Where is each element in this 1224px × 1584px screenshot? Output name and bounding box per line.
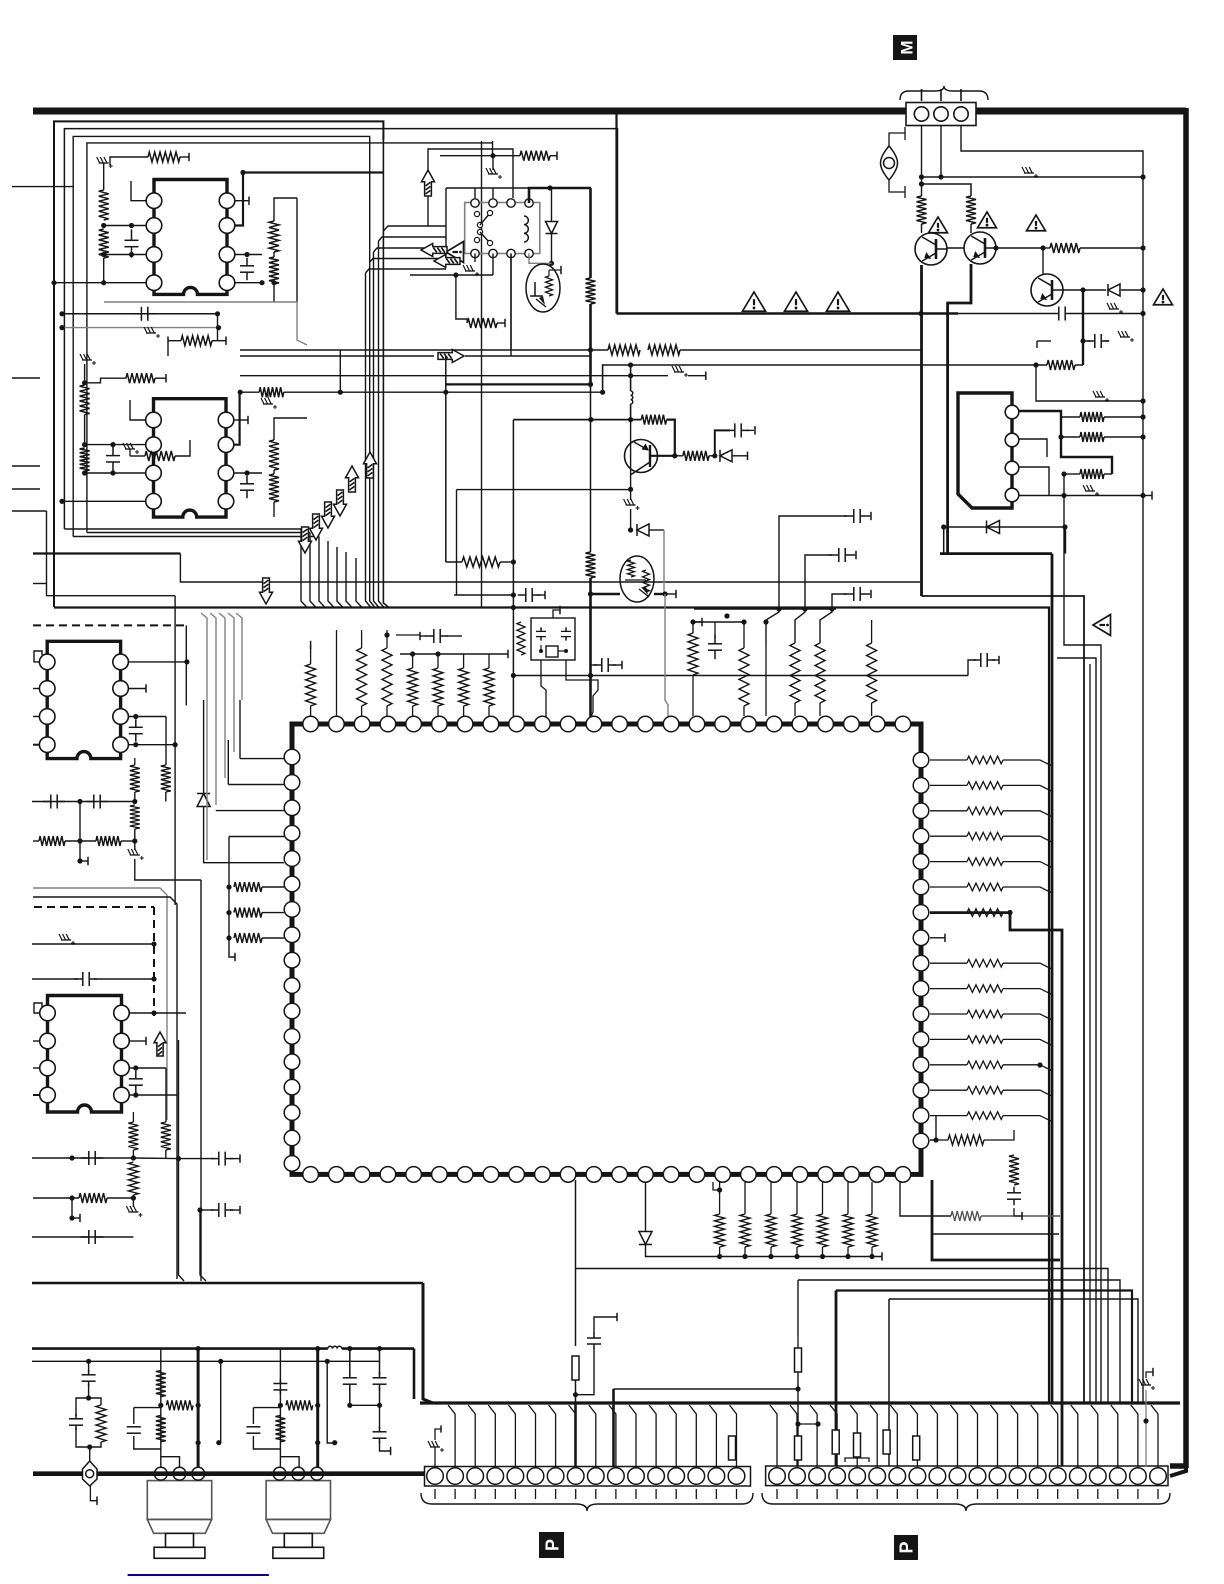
- U1 bottom pins: [303, 1167, 911, 1183]
- thermistor TH2: [620, 556, 654, 602]
- resistor R8: [80, 380, 90, 447]
- capacitor C20: [75, 972, 97, 986]
- wire IC1 pin3 left: [104, 254, 146, 256]
- wire relay bottom net: [475, 254, 552, 351]
- resistor RT10: [790, 643, 800, 716]
- ground G7: [463, 265, 479, 276]
- svg-text:M: M: [898, 40, 917, 54]
- resistor R22: [1061, 412, 1146, 422]
- wire stub left y466: [12, 465, 40, 467]
- resistor R27: [641, 415, 666, 425]
- wire x590 thick drop: [588, 578, 593, 724]
- wire y1283 bus: [32, 1282, 423, 1285]
- wire y801 line: [32, 799, 135, 804]
- wire IC2 pin2 right dark: [234, 392, 240, 445]
- wire relay line y248: [374, 248, 447, 252]
- transistor Q2: [964, 232, 996, 264]
- op-amp IC4: [40, 996, 130, 1113]
- wire th2 net: [591, 590, 676, 598]
- resistor R9: [80, 448, 90, 476]
- resistor R2: [99, 229, 109, 283]
- resistor R6: [168, 336, 226, 346]
- wire bundle V1: [301, 140, 389, 608]
- wire x932 thick: [932, 1180, 1060, 1260]
- capacitor C30: [1007, 1187, 1022, 1220]
- wire top border bus: [33, 108, 1186, 115]
- wire dashed2 right: [153, 907, 155, 1016]
- diode D6: [720, 450, 748, 462]
- wire IC1 pin3 right: [235, 252, 262, 257]
- resistor R23: [1058, 432, 1145, 442]
- speaker SP2 network: [246, 1346, 337, 1467]
- resistor RBB2: [832, 1430, 839, 1454]
- wire IC1 pin1 left: [131, 181, 146, 201]
- wire x201 v: [200, 880, 202, 1281]
- warning triangle W1: [742, 292, 765, 311]
- wire IC3 stubs: [33, 689, 39, 745]
- signal arrow A8 right: [438, 350, 464, 363]
- diode D4: [197, 700, 284, 863]
- capacitor C31: [715, 423, 755, 455]
- capacitor C10: [420, 629, 462, 643]
- wire x456 drop: [456, 490, 458, 595]
- capacitor C12: [708, 622, 722, 659]
- opto triangle: [446, 242, 464, 263]
- ground G12: [1093, 391, 1109, 402]
- wire y596 right: [922, 596, 1085, 1403]
- wire x186 v: [184, 625, 189, 705]
- wire relay thick top: [529, 185, 591, 203]
- wire d7 gray: [663, 530, 665, 594]
- resistor R1: [99, 171, 109, 228]
- wire x1037: [1037, 341, 1051, 348]
- wire y1405 right: [350, 1404, 380, 1406]
- resistor RT11: [815, 643, 825, 716]
- signal arrow A4 down: [310, 514, 323, 540]
- op-amp IC1: [146, 180, 235, 295]
- resistor R7: [85, 373, 166, 383]
- wire IC1 pin4 right: [235, 280, 265, 285]
- wire Q4 vert: [628, 420, 633, 492]
- signal arrow A3 down: [299, 527, 312, 553]
- inductor K1 coil: [524, 216, 528, 242]
- wire x665 drop: [665, 594, 668, 724]
- resistor R16: [467, 318, 505, 328]
- wire R10 top: [274, 418, 307, 424]
- link SPK underline: [128, 1574, 269, 1576]
- wire stub left y511: [12, 510, 47, 512]
- ground G13: [1083, 485, 1099, 496]
- wire spk2 capline: [332, 1440, 337, 1445]
- ground G16: [126, 1198, 142, 1217]
- wire y1280 line: [795, 1280, 1121, 1466]
- wire y392 ext: [340, 390, 602, 395]
- resistor RL1: [226, 882, 284, 892]
- wire y364 jog: [600, 362, 1036, 394]
- wire R4 top: [274, 198, 297, 302]
- ground G14: [128, 841, 144, 860]
- capacitor C18: [43, 795, 65, 809]
- wire pin900 out: [900, 1182, 951, 1216]
- wire stub left y489: [12, 488, 40, 490]
- resistor RL6: [130, 805, 140, 844]
- warning triangle W3: [826, 292, 849, 311]
- wire y609 right: [694, 606, 836, 611]
- resistor RR17: [936, 1130, 1014, 1145]
- wire drop to R16: [456, 275, 467, 319]
- resistor RT7: [382, 630, 392, 716]
- capacitor C27: [373, 1346, 387, 1408]
- resistor R25: [586, 552, 596, 578]
- resistor R3: [148, 152, 189, 162]
- wire M pin3 route: [961, 125, 1143, 1403]
- wire y658 link: [1057, 658, 1096, 1403]
- speaker SP1: [147, 1467, 211, 1558]
- wire IC3 pin2 right: [129, 684, 146, 692]
- resistor R11: [269, 470, 279, 517]
- wire pin L3: [216, 810, 284, 812]
- wire x200 v: [197, 1145, 202, 1213]
- diode D7: [637, 524, 664, 536]
- resistor RL10: [128, 1112, 138, 1161]
- CN-A brace: [421, 1493, 753, 1511]
- wire IC2 pin1 right: [234, 416, 248, 424]
- wire y553 thick: [940, 552, 1052, 555]
- relay K1 contacts: [474, 210, 492, 245]
- resistor RBB1: [795, 1436, 802, 1460]
- U1 top pins: [303, 716, 911, 732]
- connector key CN-K: [83, 1461, 98, 1505]
- wire y313 cap line: [59, 311, 217, 316]
- wire x1084 tail: [1083, 1403, 1085, 1466]
- ground G8: [1107, 303, 1123, 314]
- wire x1143 lower: [1142, 151, 1144, 1403]
- wire speaker bus: [33, 1471, 424, 1476]
- wire gray under IC1: [104, 302, 307, 345]
- capacitor C22: [81, 1151, 103, 1165]
- ground G11: [1118, 331, 1134, 342]
- resistor RBB5: [913, 1436, 920, 1460]
- wire y177 line: [922, 174, 1146, 179]
- resistor RL5: [130, 758, 140, 804]
- warning triangle W4: [929, 217, 948, 233]
- signal arrow A10 left: [421, 244, 460, 268]
- wire right border bus: [1183, 108, 1189, 1468]
- relay K1 pins: [471, 199, 533, 258]
- resistor RT9: [727, 619, 749, 716]
- resistor RB8: [951, 1211, 1060, 1221]
- op-amp IC2: [146, 399, 234, 517]
- wire routing rect R2: [64, 129, 617, 529]
- ground G6: [486, 156, 502, 179]
- wire x766 down: [763, 619, 768, 716]
- wire x613 conn: [612, 1389, 615, 1466]
- signal arrow A2 up: [364, 452, 377, 478]
- thermistor TH1: [526, 264, 561, 312]
- wire jog x180: [180, 554, 920, 583]
- CN-B brace: [762, 1493, 1170, 1511]
- wire x591 down: [588, 304, 593, 552]
- wire x72 stub: [69, 1198, 80, 1222]
- warning triangle W8: [1093, 615, 1111, 636]
- wire pin7 thick: [930, 910, 1013, 915]
- resistor RT3: [459, 654, 469, 716]
- resistor RB0: [729, 1410, 736, 1460]
- wire Q2 emitter down: [948, 264, 971, 554]
- resistor RT1: [408, 654, 418, 716]
- capacitor C23: [179, 1152, 241, 1166]
- wire IC2 pin4 row: [59, 499, 145, 504]
- wire y313 main: [617, 311, 959, 316]
- wire y275 gnd line: [410, 272, 493, 277]
- ground G18: [1139, 1368, 1155, 1467]
- wire CN3 p4: [1019, 474, 1067, 498]
- CN-A ticks: [435, 1489, 737, 1499]
- wire x1083: [1082, 290, 1084, 365]
- transistor Q1: [915, 233, 947, 265]
- resistor RL9: [161, 1122, 171, 1158]
- wire y979 line: [32, 976, 157, 981]
- resistor RL2: [226, 908, 284, 918]
- capacitor C26: [343, 1346, 357, 1408]
- wire y376 line: [240, 373, 633, 378]
- capacitor C2: [240, 258, 254, 280]
- resistor bank right RR: [930, 756, 1052, 1121]
- wire IC4 pin2 right: [130, 1037, 146, 1045]
- ground G3: [80, 354, 96, 383]
- wire y419 line: [513, 417, 641, 422]
- capacitor C14: [779, 509, 871, 609]
- warning triangle W7: [1154, 289, 1173, 305]
- wire y1158 line: [32, 1155, 133, 1160]
- speaker SP2: [266, 1467, 330, 1558]
- capacitor C11: [591, 658, 622, 672]
- wire x229 tail: [229, 887, 235, 961]
- signal arrow A11 up: [154, 1032, 166, 1056]
- resistor R20: [1043, 243, 1146, 253]
- wire x1065 drop: [1064, 527, 1066, 554]
- wire x135 tail: [135, 859, 201, 880]
- wire y495 gnd: [1064, 493, 1146, 498]
- wire relay line y237: [379, 237, 447, 241]
- wire y1299 line: [889, 1299, 1138, 1466]
- ground G2: [144, 327, 160, 338]
- resistor R15: [493, 151, 557, 161]
- wire y327 line: [59, 325, 221, 330]
- inductor L2: [628, 365, 633, 422]
- wire x616 drop: [615, 111, 617, 314]
- wire Q3 out: [1063, 287, 1106, 292]
- wire relay left bus: [446, 188, 529, 259]
- wire y595 seg: [454, 594, 513, 596]
- wire cl1: [690, 618, 702, 633]
- wire x513 drop: [511, 420, 516, 724]
- resistor R24: [1061, 469, 1112, 479]
- capacitor C6: [1051, 307, 1073, 321]
- wire x80 stub: [77, 802, 88, 866]
- wire x943 drop: [943, 527, 945, 554]
- signal arrow A5 down: [322, 502, 335, 528]
- wire stub left y377: [12, 377, 40, 379]
- resistor RL4: [161, 765, 171, 802]
- label P box A: [539, 1532, 564, 1558]
- wire key branch: [69, 1359, 106, 1461]
- wire y654 bar: [400, 650, 508, 658]
- speaker SP1 network: [127, 1346, 222, 1467]
- wire IC3 pin1 right: [129, 661, 187, 663]
- wire x1062 bus: [1010, 910, 1062, 1466]
- capacitor C25: [200, 1203, 240, 1217]
- label M box: [893, 35, 917, 60]
- wire x240 v: [228, 700, 240, 785]
- resistor RT8: [688, 633, 698, 716]
- resistor RL11: [128, 1162, 138, 1201]
- diode D2: [1108, 284, 1146, 296]
- resistor RBB4: [883, 1430, 890, 1454]
- wire IC4 pin1 bracket: [34, 1003, 42, 1013]
- resistor R10: [269, 424, 279, 470]
- wire y313 ext: [958, 311, 1146, 316]
- wire IC3 pin3 right: [129, 714, 166, 719]
- wire IC4 stubs: [33, 1041, 39, 1095]
- ground G1: [97, 157, 113, 171]
- resistor RT12: [867, 620, 877, 716]
- wire routing rect R4: [87, 143, 493, 533]
- U1 left pins: [284, 749, 300, 1171]
- wire IC2 pin3 row: [85, 472, 146, 474]
- resistor RBB3: [845, 1433, 869, 1462]
- resistor RT6: [357, 630, 367, 716]
- capacitor C21: [129, 1071, 143, 1093]
- capacitor C1: [125, 223, 139, 258]
- wire IC3 pin4 right: [129, 742, 178, 747]
- CN-B ticks: [777, 1489, 1158, 1499]
- resistor R28: [675, 451, 718, 461]
- brace over connector: [900, 86, 988, 100]
- wire dashed top: [33, 624, 186, 626]
- wire y676 line: [513, 675, 968, 677]
- wire x423 thick: [423, 1283, 433, 1403]
- capacitor C17: [129, 719, 143, 741]
- wire x200 tail: [200, 1210, 206, 1281]
- wire R27 corner: [667, 420, 675, 456]
- wire y1237 line: [32, 1236, 133, 1238]
- wire x229b: [229, 837, 284, 888]
- wire y1159 ext: [133, 1156, 181, 1161]
- ground G17: [428, 1425, 444, 1467]
- wire cl2: [693, 613, 730, 622]
- capacitor C24: [81, 1230, 103, 1244]
- connector CN-M: [906, 89, 976, 126]
- wire pin L4: [228, 837, 230, 863]
- wire slant drops: [766, 609, 832, 645]
- wire CN3 p3: [1019, 467, 1049, 496]
- wire x168 drop: [167, 345, 169, 356]
- label P box B: [894, 1535, 918, 1560]
- connector CN-A: [425, 1467, 751, 1487]
- wire CN3 p2: [1019, 439, 1047, 457]
- wire relay feed top: [428, 149, 513, 226]
- wire gray g2: [33, 897, 177, 1279]
- resistor R4: [269, 205, 279, 257]
- wire x591 thick: [589, 188, 592, 278]
- wire y350 line: [240, 349, 591, 351]
- signal arrow A7 down: [260, 578, 273, 604]
- wire stub left y186: [12, 186, 73, 188]
- resistor RT4: [484, 654, 494, 716]
- diode D3: [987, 521, 1000, 534]
- ground G20: [624, 490, 640, 510]
- wire x1052 bus: [1051, 554, 1054, 1403]
- inductor L1: [328, 1346, 342, 1348]
- ground G4: [261, 392, 277, 409]
- resistor RT5: [306, 641, 316, 716]
- capacitor C5: [240, 476, 254, 498]
- ground G9: [672, 366, 688, 377]
- resistor RR7: [967, 909, 1052, 918]
- wire x630 low: [628, 509, 633, 533]
- wire bundle V2: [201, 613, 242, 860]
- wire x340 up: [339, 350, 341, 392]
- wire v x46 to y595: [47, 511, 176, 596]
- wire gray g1: [33, 888, 167, 1120]
- wire y356 line: [240, 355, 591, 357]
- wire IC4 pin3 right: [130, 1065, 166, 1070]
- wire c10 link: [396, 634, 420, 636]
- wire dashed2 top: [34, 906, 154, 908]
- wire IC1 pin2 left: [104, 225, 146, 227]
- connector CN-B: [766, 1466, 1168, 1486]
- wire y156 line: [440, 153, 496, 158]
- resistor array RB1-7: [713, 1182, 882, 1261]
- CN-A pin wires: [448, 1405, 736, 1467]
- resistor RL7: [33, 836, 96, 846]
- wire x492 drop: [492, 141, 494, 156]
- wire x511 relay tail: [510, 254, 512, 357]
- svg-text:P: P: [543, 1539, 563, 1551]
- wire relay line y258: [370, 259, 446, 263]
- wire x575 conn: [572, 1180, 579, 1466]
- resistor RL12: [33, 1193, 133, 1203]
- wire IC2 pin1 left: [130, 400, 145, 420]
- capacitor C19: [86, 795, 108, 809]
- wire y489 line: [457, 489, 631, 491]
- wire IC2 pin2 row: [85, 444, 146, 446]
- resistor R13: [130, 440, 190, 461]
- wire routing rect R3: [73, 136, 370, 536]
- signal arrow A9 up: [422, 170, 435, 196]
- wire CN3 x1061 thick: [1061, 417, 1112, 474]
- wire M pin1 down: [919, 125, 924, 196]
- wire y141 seg: [87, 142, 493, 144]
- crystal X1 network: [517, 606, 575, 660]
- wire pin16 net: [930, 1115, 939, 1143]
- wire g9: [631, 372, 706, 380]
- wire IC1 pin4 row: [51, 280, 146, 285]
- wire relay line y226: [383, 226, 446, 231]
- wire y1234 line: [932, 1233, 1059, 1235]
- capacitor C16: [832, 587, 871, 609]
- diode D5: [639, 1182, 713, 1257]
- capacitor C28: [373, 1405, 391, 1455]
- wire IC1 pin2 right dark: [235, 170, 383, 226]
- ground G10: [1022, 167, 1038, 178]
- wire y1405 seg: [161, 1404, 198, 1406]
- wire y495 tbar: [1143, 491, 1152, 499]
- resistor RT2: [433, 654, 443, 716]
- wire IC4 pin4 right: [130, 1092, 177, 1097]
- resistor RR16b: [1009, 1130, 1019, 1185]
